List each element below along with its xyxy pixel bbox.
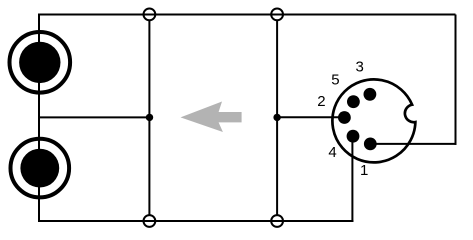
junction node A: [146, 114, 153, 121]
wire vertical link 1: [148, 20, 150, 215]
RCA jack J2 outer ring: [11, 139, 70, 198]
svg-text:3: 3: [356, 59, 364, 76]
terminal top 2: [271, 9, 283, 21]
DIN pin 3: [364, 88, 377, 101]
svg-text:2: 2: [317, 93, 325, 110]
wire pin 4 drop to bottom bus: [351, 136, 353, 222]
RCA jack J2 center pin: [20, 149, 59, 188]
svg-text:5: 5: [331, 71, 339, 88]
svg-text:4: 4: [328, 144, 336, 161]
wire top bus: [39, 14, 456, 16]
DIN-5 connector U1 body with keyway notch: [332, 79, 415, 162]
terminal bottom 2: [271, 215, 283, 227]
DIN pin 1: [364, 138, 377, 151]
wire left bus through jacks: [38, 14, 40, 223]
wire pin 1 to right bus: [370, 143, 456, 145]
terminal top 1: [144, 9, 156, 21]
DIN pin 5: [347, 95, 360, 108]
junction node B: [273, 114, 280, 121]
signal direction arrow: [181, 102, 242, 133]
DIN pin 4: [347, 130, 360, 143]
RCA jack J1 center pin: [19, 42, 60, 83]
wire signal mid-left: [39, 116, 150, 118]
terminal bottom 1: [144, 215, 156, 227]
wire signal mid-right to pin 2: [277, 116, 344, 118]
DIN pin 2: [338, 111, 351, 124]
wire bottom bus: [39, 220, 353, 222]
wire right bus: [455, 15, 457, 145]
wire vertical link 2: [276, 20, 278, 215]
RCA jack J1 outer ring: [10, 32, 71, 93]
svg-text:1: 1: [360, 162, 368, 179]
